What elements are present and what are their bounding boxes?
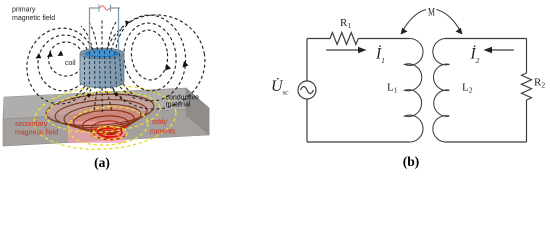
- field arrow right middle: [183, 61, 189, 68]
- arrowhead M left: [401, 28, 408, 35]
- excitation top wire: [89, 7, 99, 9]
- secondary field ring 6: [91, 120, 124, 135]
- svg-text:primary: primary: [12, 7, 36, 14]
- current arrow I2: [490, 49, 514, 51]
- wire: bottom right: [445, 141, 527, 143]
- wire: top right segment: [445, 38, 527, 40]
- wire: right vertical lower: [526, 100, 528, 142]
- eddy current yellow dashed loop middle: [45, 88, 162, 136]
- wire: left upper vertical: [306, 39, 308, 82]
- secondary field ring 3: [63, 102, 142, 132]
- wire: bottom left: [307, 141, 409, 143]
- svg-text:İ1: İ1: [375, 46, 385, 66]
- svg-text:L1: L1: [387, 82, 398, 95]
- field arrow left middle: [36, 53, 42, 59]
- eddy current yellow dashed loop outer: [32, 81, 178, 154]
- svg-text:magnetic field: magnetic field: [15, 130, 58, 137]
- secondary field ring 1: [45, 91, 155, 129]
- field lines fanning below coil: [71, 86, 136, 113]
- secondary field core inner ring: [104, 130, 116, 134]
- conductive material slab: right face: [186, 88, 209, 135]
- field arrow below coil left: [87, 94, 92, 98]
- svg-text:R2: R2: [534, 77, 545, 90]
- field arrow left inner: [47, 52, 53, 58]
- primary field dashed loop left outer: [21, 23, 101, 110]
- arrowhead I1: [358, 47, 367, 53]
- primary field dashed loop right outer: [98, 7, 213, 117]
- primary field dashed loop left middle: [34, 31, 95, 95]
- svg-text:U̇sc: U̇sc: [271, 78, 289, 97]
- coil top inner blue: [85, 50, 120, 58]
- source terminal tick right: [110, 5, 112, 12]
- pink clipped patch at funnel bottom: [68, 122, 126, 144]
- field arrow left flare: [58, 51, 64, 57]
- field arrow below coil right: [114, 93, 119, 97]
- excitation wire right: [118, 8, 120, 51]
- svg-text:İ2: İ2: [470, 46, 480, 66]
- arrowhead I2: [484, 47, 493, 53]
- arrowhead M right: [456, 28, 463, 35]
- red current arrow bottom: [105, 136, 110, 140]
- svg-text:coil: coil: [65, 60, 76, 67]
- svg-text:(b): (b): [403, 154, 420, 169]
- svg-text:secondary: secondary: [15, 121, 48, 128]
- current arrow I1: [326, 49, 360, 51]
- eddy current yellow dashed loop inner: [67, 104, 149, 147]
- svg-text:M: M: [428, 5, 435, 19]
- inductor L2: [433, 39, 450, 143]
- red current arrow left: [92, 128, 97, 132]
- svg-text:R1: R1: [340, 17, 351, 30]
- svg-text:eddy: eddy: [152, 119, 168, 126]
- inductor L1: [405, 38, 424, 142]
- mutual inductance arc right: [437, 10, 461, 32]
- AC source squiggle: [100, 6, 110, 10]
- primary field dashed loop right inner: [121, 20, 180, 93]
- svg-text:L2: L2: [462, 82, 473, 95]
- wire: left lower vertical: [306, 99, 308, 142]
- conductive material slab: front face: [3, 108, 209, 146]
- eddy current yellow dashed loop core: [93, 127, 127, 140]
- secondary field ring 5: [82, 114, 129, 134]
- coil top rim: [80, 48, 124, 59]
- primary field dashed loop right innermost: [129, 28, 170, 81]
- wire: right vertical upper: [526, 39, 528, 74]
- resistor R2: [522, 73, 532, 100]
- svg-text:magnetic field: magnetic field: [12, 15, 55, 22]
- orange current dots: [80, 126, 120, 138]
- AC source U_sc: [298, 81, 316, 99]
- red current arrow right: [123, 125, 128, 129]
- excitation wire left: [89, 8, 91, 51]
- source terminal tick left: [98, 5, 100, 12]
- secondary field ring 4: [73, 108, 135, 133]
- svg-text:material: material: [166, 102, 191, 109]
- svg-text:conductive: conductive: [166, 95, 200, 102]
- field arrow right inner: [165, 64, 171, 71]
- svg-text:(a): (a): [94, 155, 110, 170]
- resistor R1: [330, 33, 358, 45]
- conductive material slab: top face: [3, 88, 209, 119]
- coil winding dashes on body: [85, 51, 122, 92]
- primary field dashed loop right middle: [111, 12, 190, 105]
- svg-text:currents: currents: [150, 129, 176, 136]
- secondary field core arc: [94, 134, 126, 140]
- secondary field ring 2: [54, 97, 148, 130]
- wire: top left to coil L1: [358, 38, 409, 40]
- field arrow right inner top: [125, 21, 130, 26]
- secondary magnetic field pink halo: [45, 91, 155, 128]
- secondary field core ring: [98, 128, 122, 137]
- field lines flaring above coil: [81, 20, 124, 51]
- primary field dashed loop left inner: [46, 39, 86, 79]
- mutual inductance arc left: [403, 10, 427, 32]
- wire: top left segment: [307, 38, 330, 40]
